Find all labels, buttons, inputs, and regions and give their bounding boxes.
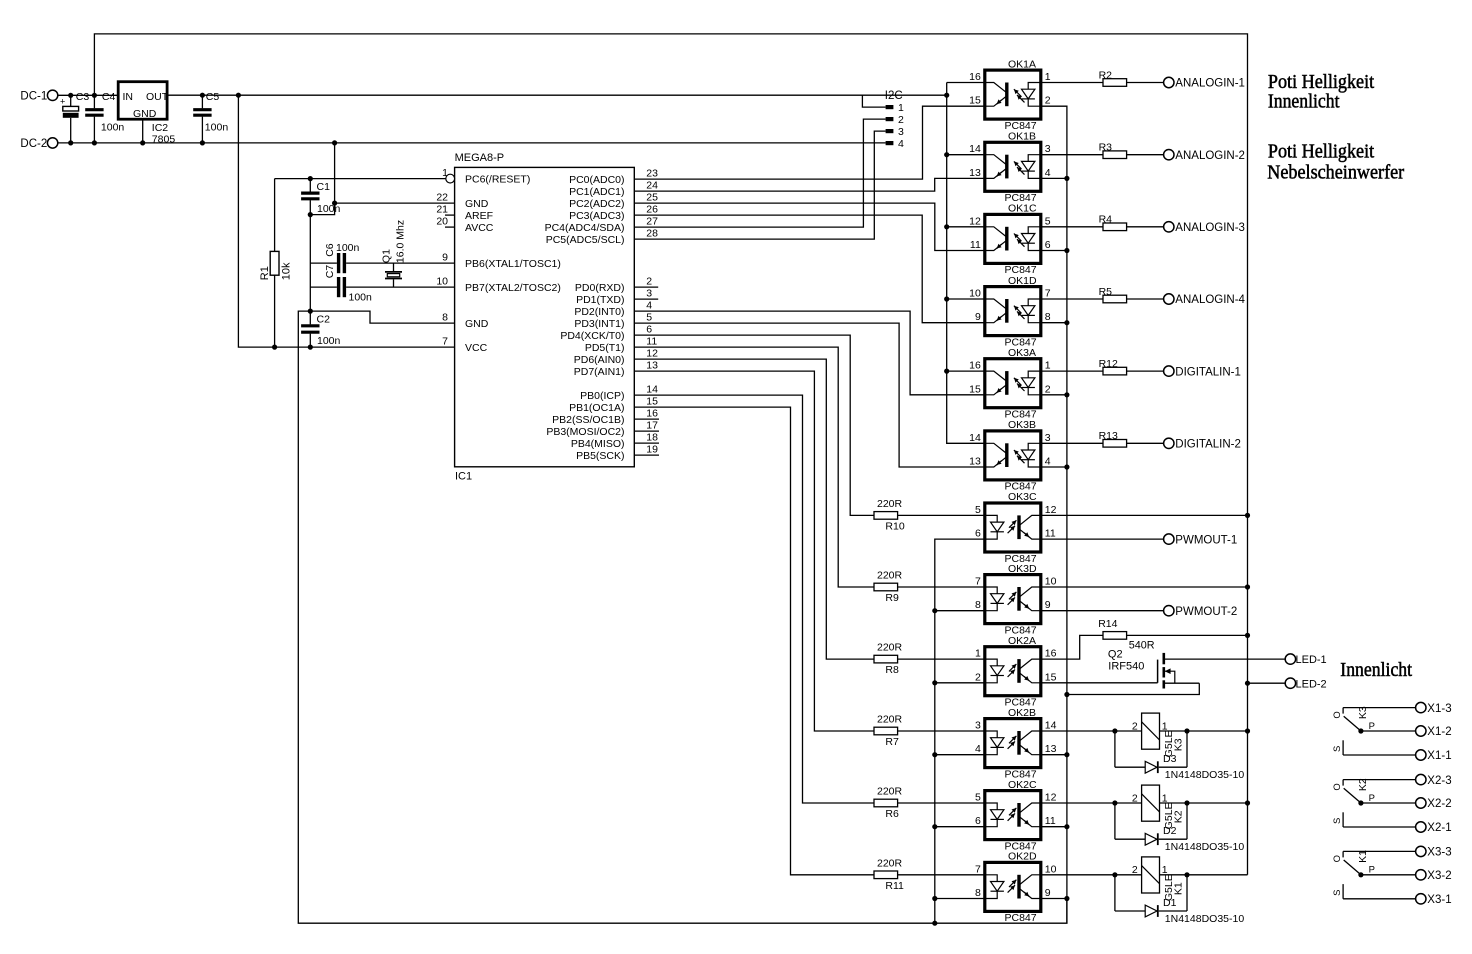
svg-text:3: 3 <box>1045 432 1051 444</box>
terminal X1-2 <box>1416 726 1426 736</box>
optocoupler OK3A PC847 <box>969 347 1051 421</box>
svg-text:6: 6 <box>975 815 981 827</box>
svg-text:28: 28 <box>646 228 658 240</box>
optocoupler OK1D PC847 <box>969 275 1051 349</box>
svg-text:11: 11 <box>646 336 657 348</box>
terminal ANALOGIN-1 <box>1164 77 1174 87</box>
svg-text:2: 2 <box>898 114 904 126</box>
wire opto to R2 <box>1041 82 1103 84</box>
wire MCU pin25 to OK1C emitter <box>634 203 985 250</box>
resistor R5 <box>1103 295 1127 303</box>
svg-text:7: 7 <box>442 336 448 348</box>
wire OK2A collector to R14 <box>1041 635 1103 659</box>
svg-text:15: 15 <box>969 95 981 107</box>
wire 5V opto collector bus <box>947 83 985 444</box>
svg-text:100n: 100n <box>205 121 229 133</box>
terminal ANALOGIN-2 <box>1164 150 1174 160</box>
svg-text:PD7(AIN1): PD7(AIN1) <box>574 366 625 378</box>
wire reset line R1 top to MCU pin1 <box>275 178 446 180</box>
svg-text:11: 11 <box>970 239 981 251</box>
capacitor C5 100n <box>201 95 203 108</box>
svg-text:DC-1: DC-1 <box>20 91 47 103</box>
svg-text:C2: C2 <box>317 313 331 325</box>
wire relay K1 pin1 to 12V rail <box>1160 874 1248 876</box>
svg-text:15: 15 <box>646 396 658 408</box>
svg-text:1: 1 <box>442 167 448 179</box>
svg-text:X2-2: X2-2 <box>1427 798 1451 810</box>
capacitor C6 100n <box>337 253 340 273</box>
I2C pad pin 1 <box>886 105 894 109</box>
wire R12 to terminal <box>1127 370 1164 372</box>
svg-text:1: 1 <box>1045 360 1051 372</box>
svg-text:MEGA8-P: MEGA8-P <box>455 152 505 164</box>
relay K1 G5LE coil <box>1132 857 1184 909</box>
svg-text:PB1(OC1A): PB1(OC1A) <box>569 402 624 414</box>
terminal PWMOUT-1 <box>1164 534 1174 544</box>
svg-text:Nebelscheinwerfer: Nebelscheinwerfer <box>1267 162 1404 184</box>
terminal ANALOGIN-3 <box>1164 222 1174 232</box>
svg-text:Innenlicht: Innenlicht <box>1340 659 1412 681</box>
svg-text:K2: K2 <box>1172 810 1184 823</box>
wire OK3D collector to 12V rail <box>1041 586 1248 588</box>
svg-text:R1: R1 <box>259 266 271 280</box>
svg-text:9: 9 <box>442 252 448 264</box>
svg-text:D2: D2 <box>1163 825 1177 837</box>
svg-text:S: S <box>1332 889 1343 895</box>
optocoupler OK3B PC847 <box>969 419 1051 493</box>
svg-text:9: 9 <box>975 311 981 323</box>
wire opto to R5 <box>1041 298 1103 300</box>
svg-text:3: 3 <box>975 720 981 732</box>
svg-text:X3-1: X3-1 <box>1427 894 1451 906</box>
svg-text:7805: 7805 <box>152 134 176 146</box>
wire MCU pin14 to 220R row 10 <box>634 395 874 803</box>
wire opto row 11 emitter to bus <box>1041 898 1067 900</box>
svg-text:8: 8 <box>1045 311 1051 323</box>
switch contact K1 <box>1332 850 1415 899</box>
svg-text:C6: C6 <box>324 243 336 257</box>
wire R11 to opto <box>898 874 985 876</box>
svg-text:IN: IN <box>123 91 134 103</box>
svg-text:13: 13 <box>1045 743 1057 755</box>
wire opto row 10 emitter to bus <box>1041 826 1067 828</box>
svg-text:GND: GND <box>133 108 157 120</box>
svg-text:X3-3: X3-3 <box>1427 847 1451 859</box>
terminal X1-3 <box>1416 702 1426 712</box>
wire gnd node to bottom bus <box>298 311 1067 923</box>
svg-text:2: 2 <box>1045 383 1051 395</box>
svg-text:PC5(ADC5/SCL): PC5(ADC5/SCL) <box>546 234 625 246</box>
svg-text:DIGITALIN-1: DIGITALIN-1 <box>1175 366 1241 378</box>
svg-text:220R: 220R <box>877 857 903 869</box>
svg-text:PC1(ADC1): PC1(ADC1) <box>569 186 624 198</box>
svg-text:4: 4 <box>898 138 904 150</box>
wire OK3D emitter to PWMOUT-2 <box>1041 610 1164 612</box>
svg-text:220R: 220R <box>877 642 903 654</box>
svg-text:R2: R2 <box>1099 69 1113 81</box>
svg-text:C5: C5 <box>206 91 220 103</box>
svg-text:16: 16 <box>969 360 981 372</box>
svg-text:25: 25 <box>646 192 658 204</box>
wire OK2A emitter to Q2 gate <box>1041 682 1158 684</box>
wire opto to relay K3 pin2 <box>1041 730 1142 732</box>
svg-text:16: 16 <box>969 71 981 83</box>
svg-text:16: 16 <box>646 408 658 420</box>
wire MCU pin4 INT0 to OK3A emitter <box>634 311 985 395</box>
capacitor C2 100n <box>309 311 311 324</box>
wire MCU pin19 stub <box>634 454 659 456</box>
svg-text:14: 14 <box>646 384 658 396</box>
svg-text:K1: K1 <box>1357 850 1369 863</box>
svg-text:R6: R6 <box>885 808 899 820</box>
wire opto row 1 cathode to bus <box>1041 177 1067 179</box>
svg-text:GND: GND <box>465 198 489 210</box>
svg-text:Q1: Q1 <box>380 249 392 263</box>
wire opto to R13 <box>1041 442 1103 444</box>
svg-text:6: 6 <box>1045 239 1051 251</box>
svg-text:PC4(ADC4/SDA): PC4(ADC4/SDA) <box>545 222 625 234</box>
wire raw DC top bus <box>94 34 1247 875</box>
svg-text:21: 21 <box>436 204 448 216</box>
resistor R13 <box>1103 440 1127 448</box>
resistor R3 <box>1103 151 1127 159</box>
resistor R7 220R <box>874 727 898 735</box>
wire opto row 9 emitter to bus <box>1041 754 1067 756</box>
wire opto row 10 led cathode to bus <box>935 826 985 828</box>
resistor R11 220R <box>874 871 898 879</box>
junction dot C1 gnd <box>308 212 313 217</box>
junction dots on DC-1 wire <box>68 93 73 98</box>
svg-text:9: 9 <box>1045 887 1051 899</box>
wire Q2 drain to LED-1 <box>1164 658 1285 660</box>
svg-text:R13: R13 <box>1099 430 1118 442</box>
I2C pad pin 4 <box>886 141 894 145</box>
svg-text:220R: 220R <box>877 570 903 582</box>
svg-text:K3: K3 <box>1357 706 1369 719</box>
svg-text:20: 20 <box>436 216 448 228</box>
optocoupler OK2B PC847 <box>975 707 1057 781</box>
svg-text:R10: R10 <box>885 520 904 532</box>
svg-text:PB2(SS/OC1B): PB2(SS/OC1B) <box>552 414 624 426</box>
svg-text:10: 10 <box>436 276 448 288</box>
svg-text:3: 3 <box>898 126 904 138</box>
svg-text:PD5(T1): PD5(T1) <box>585 342 625 354</box>
svg-text:R7: R7 <box>885 736 899 748</box>
svg-text:PB3(MOSI/OC2): PB3(MOSI/OC2) <box>546 426 624 438</box>
wire opto row 9 led cathode to bus <box>935 754 985 756</box>
svg-text:16: 16 <box>1045 648 1057 660</box>
svg-text:PB7(XTAL2/TOSC2): PB7(XTAL2/TOSC2) <box>465 282 561 294</box>
optocoupler OK1C PC847 <box>969 203 1051 277</box>
svg-text:DC-2: DC-2 <box>20 138 47 150</box>
svg-text:14: 14 <box>969 143 981 155</box>
svg-text:O: O <box>1332 711 1343 718</box>
svg-text:2: 2 <box>646 276 652 288</box>
svg-text:540R: 540R <box>1129 640 1155 652</box>
svg-text:16.0 Mhz: 16.0 Mhz <box>395 220 407 263</box>
wire opto to R4 <box>1041 226 1103 228</box>
wire opto row 5 cathode to bus <box>1041 466 1067 468</box>
junction dot gnd pin22 <box>332 201 337 206</box>
capacitor C1 100n <box>309 179 311 192</box>
wire R2 to terminal <box>1127 82 1164 84</box>
capacitor C4 100n <box>93 95 95 108</box>
svg-text:OK2A: OK2A <box>1008 635 1036 647</box>
svg-text:5: 5 <box>975 792 981 804</box>
wire R4 to terminal <box>1127 226 1164 228</box>
terminal DIGITALIN-2 <box>1164 438 1174 448</box>
switch contact K2 <box>1332 778 1415 827</box>
svg-text:IC1: IC1 <box>455 471 472 483</box>
svg-text:8: 8 <box>975 599 981 611</box>
resistor R4 <box>1103 223 1127 231</box>
svg-text:4: 4 <box>646 300 652 312</box>
wire R13 to terminal <box>1127 442 1164 444</box>
wire MCU pin16 stub <box>634 418 659 420</box>
svg-text:26: 26 <box>646 204 658 216</box>
svg-text:GND: GND <box>465 318 489 330</box>
terminal X2-3 <box>1416 774 1426 784</box>
svg-text:1: 1 <box>898 102 904 114</box>
svg-text:S: S <box>1332 818 1343 824</box>
svg-text:13: 13 <box>969 167 981 179</box>
svg-text:Poti Helligkeit: Poti Helligkeit <box>1268 71 1375 93</box>
relay K3 G5LE coil <box>1132 713 1184 765</box>
svg-text:IC2: IC2 <box>152 122 169 134</box>
wire opto row 3 cathode to bus <box>1041 322 1067 324</box>
wire R14 to 12V rail <box>1127 634 1248 636</box>
svg-text:AVCC: AVCC <box>465 222 494 234</box>
svg-text:220R: 220R <box>877 786 903 798</box>
MCU pin 1 PC6(/RESET) circle <box>446 174 455 183</box>
svg-text:3: 3 <box>1045 143 1051 155</box>
svg-text:D1: D1 <box>1163 897 1177 909</box>
optocoupler OK2C PC847 <box>975 779 1057 853</box>
svg-text:1: 1 <box>975 648 981 660</box>
wire opto to R12 <box>1041 370 1103 372</box>
optocoupler OK3C PC847 <box>975 491 1057 565</box>
voltage regulator IC2 7805 <box>118 82 167 120</box>
svg-text:100n: 100n <box>349 292 373 304</box>
svg-text:12: 12 <box>1045 792 1057 804</box>
svg-text:OK3A: OK3A <box>1008 347 1036 359</box>
terminal PWMOUT-2 <box>1164 606 1174 616</box>
svg-text:C4: C4 <box>102 91 116 103</box>
wire opto row 4 cathode to bus <box>1041 394 1067 396</box>
svg-text:7: 7 <box>975 863 981 875</box>
wire R5 to terminal <box>1127 298 1164 300</box>
diode D1 1N4148DO35-10 <box>1115 875 1244 925</box>
wire LED cathode bus lower <box>935 539 985 923</box>
junction dot C1 top <box>308 176 313 181</box>
svg-text:X3-2: X3-2 <box>1427 870 1451 882</box>
svg-text:PC6(/RESET): PC6(/RESET) <box>465 174 530 186</box>
svg-text:P: P <box>1369 865 1375 876</box>
svg-text:X2-1: X2-1 <box>1427 822 1451 834</box>
wire opto row 11 led cathode to bus <box>935 898 985 900</box>
wire MCU pin24 to OK1B emitter <box>634 178 985 191</box>
junction dots on VCC line <box>272 345 277 350</box>
svg-text:OK2B: OK2B <box>1008 707 1036 719</box>
svg-text:220R: 220R <box>877 498 903 510</box>
svg-text:PB5(SCK): PB5(SCK) <box>576 450 624 462</box>
terminal X2-2 <box>1416 798 1426 808</box>
svg-text:11: 11 <box>1045 528 1056 540</box>
capacitor C7 100n <box>337 277 340 297</box>
junction dot bottom bus <box>932 921 937 926</box>
resistor R14 540R <box>1103 632 1127 640</box>
wire GND spine C1 to C2 <box>309 215 311 312</box>
svg-text:LED-1: LED-1 <box>1296 654 1327 666</box>
wire XTAL1 line pin9 <box>310 262 337 264</box>
svg-text:12: 12 <box>969 215 981 227</box>
terminal DC-2 <box>47 138 57 148</box>
svg-text:14: 14 <box>969 432 981 444</box>
svg-text:10: 10 <box>1045 863 1057 875</box>
wire R6 to opto <box>898 802 985 804</box>
svg-text:4: 4 <box>1045 456 1051 468</box>
svg-text:5: 5 <box>1045 215 1051 227</box>
svg-text:R3: R3 <box>1099 142 1113 154</box>
svg-text:P: P <box>1369 793 1375 804</box>
svg-text:+: + <box>60 97 65 107</box>
diode D3 1N4148DO35-10 <box>1115 731 1244 781</box>
resistor R1 10k <box>274 179 276 252</box>
wire IC2 GND pin to GND rail <box>142 119 144 143</box>
svg-text:PD1(TXD): PD1(TXD) <box>576 294 624 306</box>
svg-text:C1: C1 <box>317 181 331 193</box>
resistor R2 <box>1103 79 1127 87</box>
svg-text:X1-3: X1-3 <box>1427 703 1451 715</box>
svg-text:PWMOUT-1: PWMOUT-1 <box>1175 534 1237 546</box>
svg-text:K1: K1 <box>1172 882 1184 895</box>
wire MCU pin23 to OK1A emitter <box>634 106 985 179</box>
wire opto row 7 led cathode to bus <box>935 610 985 612</box>
switch contact K3 <box>1332 706 1415 755</box>
svg-text:PD2(INT0): PD2(INT0) <box>574 306 624 318</box>
terminal X1-1 <box>1416 750 1426 760</box>
terminal DIGITALIN-1 <box>1164 366 1174 376</box>
wire MCU pin27 SDA to I2C pin2 <box>634 119 885 227</box>
optocoupler OK1A PC847 <box>969 58 1051 132</box>
svg-text:R9: R9 <box>885 592 899 604</box>
svg-text:Q2: Q2 <box>1108 648 1123 660</box>
wire MCU pin11 to 220R row 7 <box>634 347 874 587</box>
resistor R8 220R <box>874 655 898 663</box>
wire gnd node to MCU pin8 <box>310 311 454 323</box>
wire R9 to opto <box>898 586 985 588</box>
svg-text:C7: C7 <box>324 265 336 279</box>
wire relay K2 pin1 to 12V rail <box>1160 802 1248 804</box>
svg-text:DIGITALIN-2: DIGITALIN-2 <box>1175 439 1241 451</box>
svg-text:PWMOUT-2: PWMOUT-2 <box>1175 606 1237 618</box>
svg-text:IRF540: IRF540 <box>1108 661 1144 673</box>
resistor R12 <box>1103 367 1127 375</box>
IC MEGA8-P IC1 body <box>455 167 635 466</box>
wire MCU pin6 to 220R row 6 <box>634 335 874 515</box>
svg-text:OK1D: OK1D <box>1008 275 1037 287</box>
svg-text:I2C: I2C <box>885 90 903 102</box>
svg-text:PD4(XCK/T0): PD4(XCK/T0) <box>560 330 624 342</box>
svg-text:4: 4 <box>1045 167 1051 179</box>
svg-text:OUT: OUT <box>146 91 169 103</box>
svg-text:P: P <box>1369 721 1375 732</box>
svg-text:Innenlicht: Innenlicht <box>1268 91 1340 113</box>
svg-text:PB6(XTAL1/TOSC1): PB6(XTAL1/TOSC1) <box>465 258 561 270</box>
svg-text:R11: R11 <box>885 880 904 892</box>
svg-text:12: 12 <box>1045 504 1057 516</box>
svg-text:PC3(ADC3): PC3(ADC3) <box>569 210 624 222</box>
wire R3 to terminal <box>1127 154 1164 156</box>
svg-text:K2: K2 <box>1357 778 1369 791</box>
terminal LED-2 <box>1285 678 1295 688</box>
junction dots on 5V bus <box>944 152 949 157</box>
resistor R10 220R <box>874 512 898 520</box>
svg-text:OK2D: OK2D <box>1008 851 1037 863</box>
resistor R6 220R <box>874 799 898 807</box>
svg-text:17: 17 <box>646 420 658 432</box>
optocoupler OK3D PC847 <box>975 563 1057 637</box>
wire emitter bus lower <box>1066 695 1068 924</box>
wire OK3C emitter to PWMOUT-1 <box>1041 538 1164 540</box>
svg-text:100n: 100n <box>317 203 341 215</box>
junction dot C2 top gnd node <box>308 309 313 314</box>
svg-text:R14: R14 <box>1098 618 1117 630</box>
svg-text:3: 3 <box>646 288 652 300</box>
svg-text:7: 7 <box>975 576 981 588</box>
wire LED cathode bus upper <box>1041 106 1067 694</box>
wire I2C pin1 to 5V <box>862 95 885 107</box>
wire DC-1 to IC2 IN <box>58 94 118 96</box>
svg-text:K3: K3 <box>1172 738 1184 751</box>
svg-text:100n: 100n <box>317 335 341 347</box>
diode D2 1N4148DO35-10 <box>1115 803 1244 853</box>
svg-text:OK1A: OK1A <box>1008 58 1036 70</box>
relay K2 G5LE coil <box>1132 785 1184 837</box>
svg-text:C3: C3 <box>76 91 90 103</box>
wire 5V line IC2 OUT to opto bus <box>167 94 947 96</box>
svg-text:OK3D: OK3D <box>1008 563 1037 575</box>
svg-text:11: 11 <box>1045 815 1056 827</box>
wire MCU pin12 to 220R row 8 <box>634 359 874 659</box>
wire MCU pin26 to OK1D emitter <box>634 215 985 323</box>
svg-text:220R: 220R <box>877 714 903 726</box>
svg-text:PC2(ADC2): PC2(ADC2) <box>569 198 624 210</box>
svg-text:1N4148DO35-10: 1N4148DO35-10 <box>1165 841 1245 853</box>
svg-text:14: 14 <box>1045 720 1057 732</box>
wire MCU pin13 to 220R row 9 <box>634 371 874 731</box>
svg-text:13: 13 <box>646 360 658 372</box>
svg-text:AREF: AREF <box>465 210 493 222</box>
wire 12V rail to LED-2 <box>1248 682 1286 684</box>
terminal X2-1 <box>1416 822 1426 832</box>
svg-text:10k: 10k <box>280 262 292 280</box>
svg-text:LED-2: LED-2 <box>1296 678 1327 690</box>
wire 5V bus to opto row 3 <box>947 298 985 300</box>
wire MCU pin5 INT1 to OK3B emitter <box>634 323 985 467</box>
wire OK3C collector to 12V rail <box>1041 514 1248 516</box>
svg-text:8: 8 <box>442 312 448 324</box>
optocoupler OK2D PC847 <box>975 851 1057 925</box>
svg-text:5: 5 <box>975 504 981 516</box>
svg-text:2: 2 <box>975 671 981 683</box>
wire opto to relay K2 pin2 <box>1041 802 1142 804</box>
svg-text:OK3C: OK3C <box>1008 491 1037 503</box>
svg-text:22: 22 <box>436 192 448 204</box>
wire R10 to opto <box>898 514 985 516</box>
wire opto row 8 led cathode to bus <box>935 682 985 684</box>
optocoupler OK1B PC847 <box>969 131 1051 205</box>
